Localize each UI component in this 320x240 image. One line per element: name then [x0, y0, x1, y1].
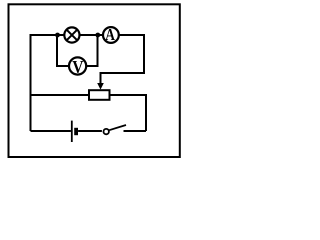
- svg-text:A: A: [105, 26, 115, 45]
- svg-text:V: V: [72, 57, 84, 77]
